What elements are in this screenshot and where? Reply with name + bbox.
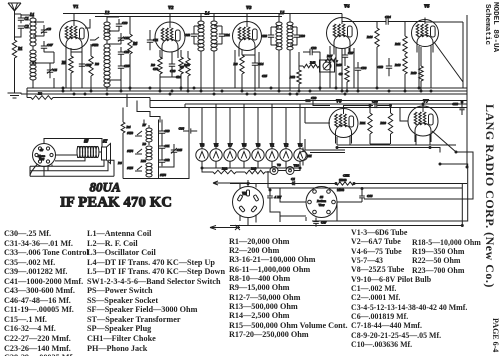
svg-text:R4: R4 xyxy=(127,125,131,129)
wire right edge drops xyxy=(444,88,458,101)
svg-text:R8: R8 xyxy=(234,62,238,66)
wire nest verticals xyxy=(306,202,362,221)
svg-text:ST: ST xyxy=(103,140,108,144)
capacitor C2 xyxy=(18,25,29,31)
svg-text:R11: R11 xyxy=(395,42,401,46)
resistor R11 xyxy=(395,22,407,54)
capacitor C37 xyxy=(342,48,354,63)
tube V4 xyxy=(327,4,358,55)
svg-text:SW2: SW2 xyxy=(92,43,99,47)
junction dots xyxy=(62,87,432,95)
label PS xyxy=(118,161,122,165)
capacitor C3 trimmer xyxy=(41,25,51,36)
svg-text:R23: R23 xyxy=(251,167,257,171)
capacitor C30 xyxy=(290,27,305,45)
wire top right xyxy=(425,22,463,82)
switch box xyxy=(123,120,159,179)
svg-text:SW6: SW6 xyxy=(160,173,166,177)
capacitor C22 xyxy=(303,46,320,55)
svg-text:V8: V8 xyxy=(242,192,246,196)
heater V7 xyxy=(224,144,236,162)
resistor R4 xyxy=(121,108,131,179)
wire V7 diagonal xyxy=(432,131,468,152)
capacitor C12 trimmer xyxy=(118,33,130,44)
capacitor C44 xyxy=(179,127,198,134)
svg-text:C50: C50 xyxy=(153,67,159,71)
svg-text:V2: V2 xyxy=(168,5,174,10)
svg-text:14000: 14000 xyxy=(337,189,345,192)
svg-text:C42: C42 xyxy=(165,158,171,162)
svg-text:R1: R1 xyxy=(18,47,23,51)
resistor R16 xyxy=(367,22,379,89)
wire heater comb xyxy=(202,104,300,149)
label C25 xyxy=(262,74,268,78)
margin text MODEL 80-UA xyxy=(491,2,499,52)
resistor R19b xyxy=(339,66,349,82)
switch SW5 xyxy=(127,166,142,171)
switch SW3 xyxy=(127,131,142,136)
wire SS staircase xyxy=(270,188,306,222)
coil L4 secondary xyxy=(211,14,217,92)
wire C36 xyxy=(313,101,391,109)
wire V5 plate xyxy=(424,18,426,23)
svg-text:R20: R20 xyxy=(380,121,386,125)
resistor R23 xyxy=(236,167,265,174)
svg-text:C36: C36 xyxy=(372,100,378,104)
wire bus 3 xyxy=(21,93,467,95)
capacitor C45 trimmer xyxy=(171,144,183,157)
heater V2 xyxy=(280,144,292,162)
resistor R18 xyxy=(395,54,407,91)
wire V2 tie xyxy=(160,76,181,78)
capacitor C1 xyxy=(18,14,29,23)
svg-text:V7: V7 xyxy=(423,99,429,104)
resistor R13 xyxy=(303,61,319,68)
wire V3 plate xyxy=(246,14,248,22)
heater V4 xyxy=(294,144,306,162)
tube socket V8 xyxy=(233,187,264,218)
resistor R19 xyxy=(411,47,423,91)
node A xyxy=(32,62,34,64)
wire V6 leads xyxy=(305,108,350,146)
speaker socket SP xyxy=(33,144,56,167)
label IF PEAK xyxy=(60,195,172,211)
resistor R2 xyxy=(27,92,150,100)
svg-text:C13: C13 xyxy=(378,65,384,69)
svg-text:PH: PH xyxy=(307,154,312,158)
svg-text:C39: C39 xyxy=(311,96,317,100)
svg-text:SW3: SW3 xyxy=(127,131,133,135)
wire phono X xyxy=(210,225,240,230)
svg-text:C2: C2 xyxy=(25,25,29,29)
resistor R20 xyxy=(380,106,392,145)
wire V2 cathode xyxy=(160,50,181,91)
svg-text:R6: R6 xyxy=(133,42,137,46)
wire R7 xyxy=(187,51,189,91)
svg-text:R16: R16 xyxy=(367,35,373,39)
capacitor C39 xyxy=(305,96,316,102)
label SW6 xyxy=(160,173,166,177)
wire V4 under xyxy=(320,48,358,91)
svg-text:C3: C3 xyxy=(47,27,51,31)
svg-text:View: View xyxy=(39,158,44,161)
wire switch staircase xyxy=(127,94,160,123)
svg-text:V10: V10 xyxy=(294,164,300,168)
svg-text:C1: C1 xyxy=(25,17,29,21)
resistor R22 xyxy=(202,167,236,174)
svg-text:C5: C5 xyxy=(53,68,57,72)
svg-text:C25: C25 xyxy=(262,74,268,78)
svg-text:C20: C20 xyxy=(170,69,176,73)
svg-text:C21: C21 xyxy=(225,33,231,37)
svg-text:C45: C45 xyxy=(177,148,183,152)
svg-text:C40: C40 xyxy=(165,129,171,133)
capacitor C13 xyxy=(252,57,264,71)
svg-text:15000: 15000 xyxy=(339,178,347,182)
parts list column 4 xyxy=(351,228,467,349)
capacitor C36 xyxy=(372,100,378,109)
capacitor C10 xyxy=(116,19,128,31)
wire V5 diagonal xyxy=(434,42,463,88)
tube V3 xyxy=(233,5,262,57)
wire V8 bottom xyxy=(240,215,256,226)
coil L10 xyxy=(140,159,152,177)
svg-text:V5: V5 xyxy=(424,4,430,9)
svg-text:R3: R3 xyxy=(95,62,99,66)
wire bus 7 xyxy=(150,107,467,109)
capacitor C34 xyxy=(342,15,425,25)
capacitor C47 xyxy=(41,41,53,52)
coil L5 secondary xyxy=(287,14,293,92)
svg-text:C47: C47 xyxy=(47,43,53,47)
svg-text:IF PEAK 470 KC: IF PEAK 470 KC xyxy=(60,195,172,211)
coil L5 primary xyxy=(276,11,284,91)
capacitor C48 xyxy=(185,26,201,44)
wire V5 cathode xyxy=(419,45,431,88)
coil L4 primary xyxy=(198,12,209,92)
wire right nest 3 xyxy=(268,171,462,226)
svg-text:L10: L10 xyxy=(140,159,147,163)
label C24 xyxy=(176,75,182,79)
svg-text:C30: C30 xyxy=(300,34,306,38)
svg-text:R2: R2 xyxy=(38,92,42,96)
svg-text:C46: C46 xyxy=(367,194,373,198)
wire antenna to ground xyxy=(14,58,16,93)
wire R3 xyxy=(90,44,92,91)
svg-text:V6: V6 xyxy=(336,99,342,104)
wire R12 xyxy=(299,52,320,91)
margin text LANG RADIO CORP xyxy=(482,104,497,288)
wire right nest 1 xyxy=(364,152,473,199)
capacitor C20 xyxy=(169,58,176,73)
phono jack PH xyxy=(299,148,312,166)
wire V7 leads xyxy=(400,108,430,146)
heater V1 xyxy=(266,144,278,162)
resistor R9 xyxy=(151,57,162,74)
svg-text:C23: C23 xyxy=(262,34,268,38)
resistor R10 xyxy=(179,57,190,74)
resistor R5 xyxy=(62,56,73,73)
svg-text:V7: V7 xyxy=(228,144,234,148)
heater V8 xyxy=(196,144,208,162)
resistor R3 xyxy=(89,56,99,76)
wire bus 1 xyxy=(27,87,467,89)
capacitor C41 xyxy=(159,141,170,153)
capacitor C11 xyxy=(147,30,159,50)
switch SW4 xyxy=(127,149,142,154)
coil L7 xyxy=(141,123,152,145)
svg-text:SP: SP xyxy=(40,149,44,152)
parts list column 1 xyxy=(4,229,89,356)
resistor R1 xyxy=(12,40,22,58)
resistor R21 xyxy=(360,106,372,145)
wire bus 2 xyxy=(27,90,467,92)
capacitor C33 xyxy=(118,47,130,58)
svg-text:R7: R7 xyxy=(180,65,184,69)
margin text Schematic xyxy=(483,4,491,45)
capacitor C47b xyxy=(313,218,327,227)
margin text PAGE xyxy=(491,318,500,352)
wire V2 plate xyxy=(169,14,171,23)
socket SS bottom view xyxy=(306,187,337,218)
wire right nest 2 xyxy=(312,164,468,221)
pilot bulb V10 xyxy=(286,164,299,175)
svg-text:C22: C22 xyxy=(311,46,317,50)
wire under V6V7 xyxy=(305,139,456,153)
svg-text:SW4: SW4 xyxy=(127,149,133,153)
parts list column 2 xyxy=(87,229,225,353)
svg-text:C34: C34 xyxy=(385,15,391,19)
svg-text:C6: C6 xyxy=(291,177,295,181)
parts list column 4b xyxy=(412,238,481,275)
resistor R6 xyxy=(128,34,138,54)
resistor R14 xyxy=(336,178,354,185)
wire switch cluster xyxy=(159,108,190,179)
capacitor C35 xyxy=(118,61,130,72)
wire pilot xyxy=(265,168,300,172)
wire speaker loop xyxy=(30,139,114,177)
capacitor C33b xyxy=(267,190,282,206)
wire L1 cluster xyxy=(33,22,54,88)
capacitor C13b xyxy=(378,58,393,76)
resistor R7 xyxy=(180,58,190,76)
svg-text:V4: V4 xyxy=(344,4,350,9)
label 80UA xyxy=(90,180,121,195)
coil L1 xyxy=(21,13,36,88)
svg-text:SW5: SW5 xyxy=(127,166,133,170)
wire V1 cathode xyxy=(71,48,82,91)
wire bottom rail xyxy=(230,225,462,227)
wire V1 extra leads xyxy=(66,50,82,88)
capacitor C5 trimmer xyxy=(47,63,57,78)
capacitor C43 xyxy=(359,189,373,203)
svg-text:V9: V9 xyxy=(277,163,281,167)
capacitor C40 xyxy=(159,126,170,138)
svg-text:C44: C44 xyxy=(179,127,185,131)
speaker transformer ST xyxy=(102,140,111,164)
speaker field SF xyxy=(77,140,99,158)
wire V8 top leads xyxy=(230,180,467,189)
svg-text:C38: C38 xyxy=(361,66,367,70)
svg-text:C41: C41 xyxy=(165,144,171,148)
svg-text:C24: C24 xyxy=(176,75,182,79)
capacitor C21 xyxy=(214,26,230,44)
resistor R17 xyxy=(325,54,338,62)
capacitor C38 xyxy=(355,62,367,76)
svg-text:R21: R21 xyxy=(360,121,366,125)
label 14000 xyxy=(337,189,345,192)
svg-text:L7: L7 xyxy=(141,123,146,127)
svg-text:C35: C35 xyxy=(124,64,130,68)
wire bus 6 xyxy=(185,103,467,105)
wire V4 plate xyxy=(63,14,342,18)
wire right nest 4 xyxy=(368,15,467,184)
wire V4 extra leads xyxy=(330,46,354,88)
wire V3 extra leads xyxy=(235,50,259,88)
tube V1 xyxy=(60,4,89,56)
coil L2 xyxy=(104,11,110,87)
resistor R12 xyxy=(290,70,302,84)
svg-text:PS: PS xyxy=(118,161,122,165)
label C50 xyxy=(153,67,159,71)
svg-text:R13: R13 xyxy=(310,61,316,65)
capacitor C15 xyxy=(79,58,92,72)
capacitor C42 xyxy=(159,155,170,166)
wire bus left join xyxy=(21,88,185,108)
wire bus 5 xyxy=(150,100,467,102)
svg-text:R15: R15 xyxy=(336,63,342,67)
wire antenna top xyxy=(15,14,22,40)
heater V6 xyxy=(238,144,250,162)
svg-text:R12: R12 xyxy=(290,75,296,79)
heater V3 xyxy=(252,144,264,162)
pilot bulb V9 xyxy=(270,163,281,175)
wire R6 xyxy=(129,17,131,92)
wire L2 cluster xyxy=(107,17,121,91)
svg-text:C48: C48 xyxy=(185,33,191,37)
choke CH1 xyxy=(332,174,350,184)
capacitor C23 xyxy=(262,27,279,45)
wire V3 cathode xyxy=(242,50,255,91)
tube V6 xyxy=(329,99,358,144)
svg-text:80UA: 80UA xyxy=(90,180,121,195)
tube V7 xyxy=(408,99,438,143)
tube V2 xyxy=(155,5,185,58)
capacitor C18 xyxy=(452,102,464,115)
svg-text:V3: V3 xyxy=(246,5,252,10)
wire V7 plate xyxy=(422,104,424,106)
tube V5 xyxy=(412,4,439,53)
antenna xyxy=(8,3,21,40)
svg-text:CH1: CH1 xyxy=(343,174,350,178)
parts list column 3 xyxy=(229,237,348,340)
coil L9 xyxy=(141,142,152,160)
svg-text:View: View xyxy=(318,203,325,207)
capacitor C6 xyxy=(291,177,295,185)
wire top bus2 xyxy=(95,16,282,18)
ground xyxy=(8,93,22,98)
svg-text:.1 Mf: .1 Mf xyxy=(274,195,282,199)
wire L2 tie xyxy=(107,79,121,81)
svg-text:C10: C10 xyxy=(122,21,128,25)
svg-text:R19: R19 xyxy=(411,71,417,75)
svg-text:R18: R18 xyxy=(395,63,401,67)
resistor R8 xyxy=(234,55,245,74)
wire heater bottoms xyxy=(202,161,300,168)
more junction dots xyxy=(62,87,468,227)
wire V1 plate xyxy=(74,14,90,29)
wire arrow left xyxy=(213,181,250,185)
svg-text:R22: R22 xyxy=(222,167,228,171)
svg-text:L9: L9 xyxy=(141,142,146,146)
volume control R15 xyxy=(320,60,342,72)
svg-text:SF: SF xyxy=(84,140,89,144)
svg-text:C18: C18 xyxy=(452,102,458,106)
svg-text:V1: V1 xyxy=(73,4,78,9)
switch SW2 xyxy=(90,37,99,47)
heater V5 xyxy=(210,144,222,162)
